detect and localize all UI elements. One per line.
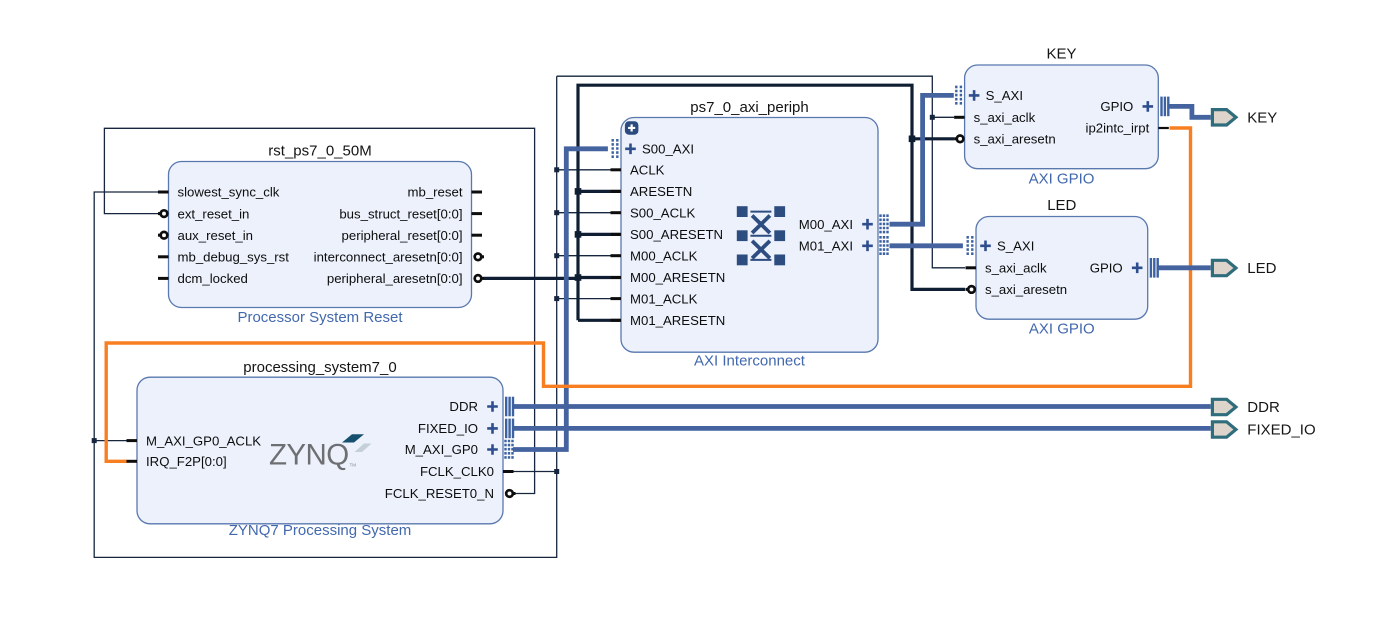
svg-text:LED: LED: [1047, 197, 1076, 214]
block LED (AXI GPIO): [976, 197, 1148, 338]
svg-text:rst_ps7_0_50M: rst_ps7_0_50M: [268, 143, 371, 160]
svg-text:LED: LED: [1247, 260, 1276, 277]
pin rst bus_struct_reset: [339, 206, 482, 221]
wire FCLK_CLK0 net: branch to ACLK: [557, 169, 621, 171]
wire peripheral_aresetn net: branch to S00_ARESETN: [578, 233, 621, 236]
pin rst interconnect_aresetn: [314, 250, 484, 265]
wire peripheral_aresetn net: branch to ARESETN: [578, 190, 621, 193]
junctions on FCLK_CLK0 net: [92, 115, 935, 474]
wire peripheral_aresetn net: from reset block: [484, 277, 579, 280]
pin led GPIO: [1090, 258, 1159, 278]
svg-text:s_axi_aclk: s_axi_aclk: [974, 110, 1036, 125]
wire FCLK_CLK0 net: pin stub to vertical trunk: [513, 471, 557, 473]
svg-text:s_axi_aclk: s_axi_aclk: [985, 261, 1047, 276]
svg-text:S00_ARESETN: S00_ARESETN: [630, 227, 723, 242]
svg-text:KEY: KEY: [1046, 46, 1076, 63]
svg-text:s_axi_aresetn: s_axi_aresetn: [974, 132, 1056, 147]
pin ps FCLK_CLK0: [420, 464, 514, 479]
svg-text:slowest_sync_clk: slowest_sync_clk: [178, 185, 280, 200]
svg-text:peripheral_aresetn[0:0]: peripheral_aresetn[0:0]: [327, 271, 463, 286]
pin rst peripheral_aresetn: [327, 271, 484, 286]
pin axi M00_ACLK: [611, 248, 698, 263]
svg-text:bus_struct_reset[0:0]: bus_struct_reset[0:0]: [339, 206, 462, 221]
svg-text:ACLK: ACLK: [630, 163, 665, 178]
wire peripheral_aresetn net: branch to KEY s_axi_aresetn: [912, 137, 954, 140]
pin axi S00_ARESETN: [611, 227, 724, 242]
wire peripheral_aresetn net: trunk, top run, down to LED s_axi_aresetn: [578, 85, 965, 320]
wire FCLK_CLK0 net: branch to M01_ACLK: [557, 298, 621, 300]
svg-text:GPIO: GPIO: [1100, 99, 1133, 114]
svg-text:M00_ARESETN: M00_ARESETN: [630, 270, 725, 285]
external port KEY: [1212, 110, 1277, 127]
wire FCLK_CLK0 net: branch to S00_ACLK: [557, 212, 621, 214]
wire peripheral_aresetn net: branch to M00_ARESETN: [578, 276, 621, 279]
svg-text:FCLK_CLK0: FCLK_CLK0: [420, 464, 494, 479]
pin ps FIXED_IO: [418, 419, 514, 439]
interface wire LED GPIO to LED port: [1159, 265, 1211, 270]
block processing_system7_0 (ZYNQ7 Processing System): [137, 359, 503, 539]
pin axi S00_ACLK: [611, 205, 696, 220]
svg-text:DDR: DDR: [1247, 399, 1280, 416]
svg-text:interconnect_aresetn[0:0]: interconnect_aresetn[0:0]: [314, 250, 463, 265]
interface wire M_AXI_GP0 to S00_AXI: [513, 149, 608, 450]
svg-text:KEY: KEY: [1247, 110, 1277, 127]
svg-text:Processor System Reset: Processor System Reset: [237, 309, 403, 326]
svg-text:ZYNQ: ZYNQ: [269, 439, 349, 472]
block KEY (AXI GPIO): [965, 46, 1159, 188]
crossbar switch icon of AXI Interconnect: [737, 206, 785, 265]
svg-text:dcm_locked: dcm_locked: [178, 271, 248, 286]
pin ps DDR: [449, 397, 514, 417]
svg-text:s_axi_aresetn: s_axi_aresetn: [985, 282, 1067, 297]
svg-text:M00_ACLK: M00_ACLK: [630, 248, 698, 263]
interface wire DDR: [513, 404, 1211, 409]
pin led S_AXI: [968, 236, 1035, 256]
pin axi ACLK: [611, 163, 665, 178]
block ps7_0_axi_periph (AXI Interconnect): [621, 99, 878, 370]
pin axi S00_AXI: [613, 139, 694, 159]
pin led s_axi_aclk: [966, 261, 1047, 276]
svg-text:M_AXI_GP0_ACLK: M_AXI_GP0_ACLK: [146, 433, 261, 448]
pin axi M00_AXI: [799, 214, 888, 234]
pin key GPIO: [1100, 97, 1169, 117]
pin axi M01_ACLK: [611, 291, 698, 306]
pin axi M01_ARESETN: [611, 313, 726, 328]
svg-text:IRQ_F2P[0:0]: IRQ_F2P[0:0]: [146, 454, 227, 469]
wire FCLK_CLK0 net: trunk down, bottom run, up to slowest_sync_clk: [94, 76, 557, 557]
svg-text:DDR: DDR: [449, 399, 478, 414]
svg-text:GPIO: GPIO: [1090, 261, 1123, 276]
interface wire M01_AXI to LED S_AXI: [890, 243, 963, 248]
pin rst mb_debug_sys_rst: [158, 250, 289, 265]
pin rst mb_reset: [408, 185, 482, 200]
pin axi ARESETN: [611, 184, 693, 199]
svg-text:M01_ACLK: M01_ACLK: [630, 291, 698, 306]
external port LED: [1212, 260, 1276, 277]
svg-text:AXI GPIO: AXI GPIO: [1029, 171, 1095, 188]
wire FCLK_CLK0 net: branch to M_AXI_GP0_ACLK: [94, 440, 137, 442]
pin ps M_AXI_GP0: [405, 440, 513, 460]
svg-text:M01_AXI: M01_AXI: [799, 239, 853, 254]
svg-text:ps7_0_axi_periph: ps7_0_axi_periph: [690, 99, 808, 116]
external port DDR: [1212, 399, 1280, 416]
block rst_ps7_0_50M (Processor System Reset): [169, 143, 472, 327]
pin rst aux_reset_in: [158, 228, 253, 243]
svg-text:S00_AXI: S00_AXI: [642, 142, 694, 157]
pin axi M00_ARESETN: [611, 270, 726, 285]
pin rst ext_reset_in: [158, 206, 249, 221]
svg-text:FIXED_IO: FIXED_IO: [1247, 422, 1315, 439]
svg-text:S_AXI: S_AXI: [986, 88, 1023, 103]
svg-text:ext_reset_in: ext_reset_in: [178, 206, 250, 221]
external port FIXED_IO: [1212, 422, 1315, 439]
pin led s_axi_aresetn: [966, 282, 1068, 297]
expand button on ps7_0_axi_periph: [625, 121, 639, 135]
wire peripheral_aresetn net: branch to M01_ARESETN: [578, 319, 621, 322]
pin key s_axi_aresetn: [954, 132, 1056, 147]
junctions on peripheral_aresetn net: [575, 136, 916, 281]
interface wire FIXED_IO: [513, 426, 1211, 431]
svg-text:FIXED_IO: FIXED_IO: [418, 421, 478, 436]
svg-text:AXI GPIO: AXI GPIO: [1029, 321, 1095, 338]
interface wire KEY GPIO to KEY port: [1169, 106, 1211, 117]
svg-text:mb_debug_sys_rst: mb_debug_sys_rst: [178, 250, 290, 265]
svg-text:S_AXI: S_AXI: [997, 239, 1034, 254]
svg-text:mb_reset: mb_reset: [408, 185, 463, 200]
svg-text:M_AXI_GP0: M_AXI_GP0: [405, 442, 478, 457]
wire FCLK_CLK0 net: top run to GPIO blocks, down to LED s_axi_aclk: [557, 76, 965, 268]
pin ps M_AXI_GP0_ACLK: [127, 433, 262, 448]
svg-text:ARESETN: ARESETN: [630, 184, 692, 199]
pin key S_AXI: [956, 86, 1023, 106]
svg-text:M00_AXI: M00_AXI: [799, 217, 853, 232]
svg-text:S00_ACLK: S00_ACLK: [630, 205, 695, 220]
wire FCLK_CLK0 net: branch to M00_ACLK: [557, 255, 621, 257]
pin ps FCLK_RESET0_N: [385, 486, 516, 501]
svg-text:M01_ARESETN: M01_ARESETN: [630, 313, 725, 328]
pin key s_axi_aclk: [954, 110, 1035, 125]
svg-text:FCLK_RESET0_N: FCLK_RESET0_N: [385, 486, 494, 501]
pin rst dcm_locked: [158, 271, 248, 286]
svg-text:peripheral_reset[0:0]: peripheral_reset[0:0]: [342, 228, 463, 243]
svg-text:aux_reset_in: aux_reset_in: [178, 228, 254, 243]
wire FCLK_RESET0_N net to ext_reset_in: [104, 128, 534, 493]
ZYNQ logo inside processing_system7_0: [269, 434, 372, 471]
wire FCLK_CLK0 net: branch to KEY s_axi_aclk: [932, 116, 954, 118]
svg-text:ZYNQ7 Processing System: ZYNQ7 Processing System: [229, 522, 412, 539]
pin axi M01_AXI: [799, 236, 888, 256]
wire ip2intc_irpt to IRQ_F2P (interrupt net): [106, 128, 1190, 461]
pin rst slowest_sync_clk: [158, 185, 280, 200]
svg-text:AXI Interconnect: AXI Interconnect: [694, 353, 806, 370]
svg-text:ip2intc_irpt: ip2intc_irpt: [1086, 121, 1150, 136]
pin rst peripheral_reset: [342, 228, 482, 243]
svg-text:processing_system7_0: processing_system7_0: [243, 359, 396, 376]
pin ps IRQ_F2P: [127, 454, 227, 469]
interface wire M00_AXI to KEY S_AXI: [890, 95, 954, 224]
svg-text:TM: TM: [350, 463, 357, 468]
pin key ip2intc_irpt: [1086, 121, 1169, 136]
